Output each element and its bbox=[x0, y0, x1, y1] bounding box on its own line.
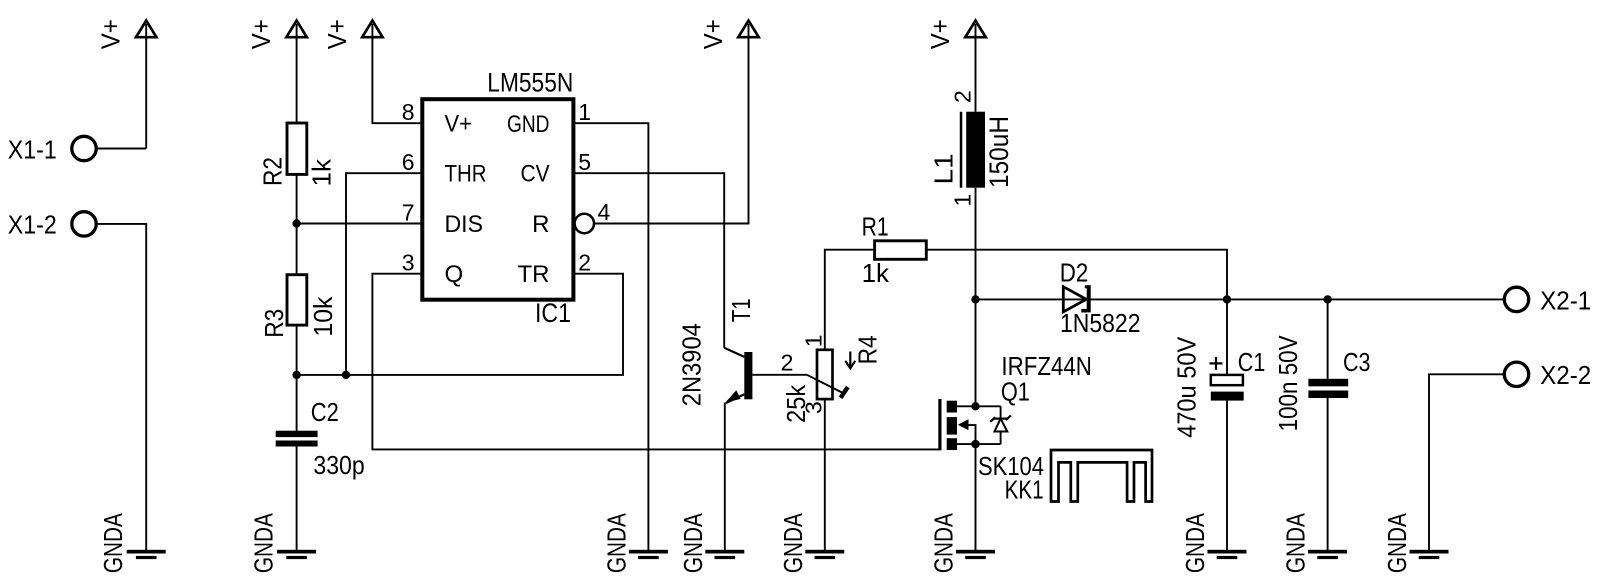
wire output node down to C1 bbox=[1226, 299, 1228, 375]
svg-text:GNDA: GNDA bbox=[249, 513, 279, 574]
svg-text:D2: D2 bbox=[1060, 258, 1089, 288]
capacitor C1 470u 50V bbox=[1172, 336, 1266, 438]
wire source to ground bbox=[975, 444, 977, 550]
ground GNDA (IC1) bbox=[601, 513, 668, 574]
svg-text:DIS: DIS bbox=[445, 211, 484, 238]
connector X1-1 bbox=[8, 134, 96, 164]
svg-text:GNDA: GNDA bbox=[929, 513, 959, 574]
svg-text:2: 2 bbox=[781, 350, 794, 376]
svg-text:2: 2 bbox=[950, 90, 976, 103]
op-amp/timer IC1 LM555N body bbox=[422, 68, 573, 329]
wire output row bbox=[976, 298, 1505, 300]
svg-text:8: 8 bbox=[402, 99, 415, 125]
svg-text:150uH: 150uH bbox=[984, 116, 1014, 188]
supply V+ arrow (R2 branch) bbox=[246, 19, 307, 49]
wire Q pin 3 to MOSFET gate bbox=[372, 274, 939, 450]
svg-text:X1-1: X1-1 bbox=[8, 134, 57, 164]
svg-text:C2: C2 bbox=[311, 397, 339, 427]
wire TR loop (pin 2 to R3/C2 node) bbox=[297, 274, 623, 375]
diode D2 1N5822 bbox=[1060, 258, 1141, 338]
wire X1-1 to V+ corner bbox=[97, 148, 147, 150]
capacitor C2 330p bbox=[276, 397, 365, 480]
svg-text:V+: V+ bbox=[698, 19, 728, 49]
svg-text:1: 1 bbox=[800, 335, 826, 348]
svg-text:X2-1: X2-1 bbox=[1540, 285, 1591, 315]
wire C2 to ground bbox=[296, 447, 298, 551]
potentiometer R4 25k bbox=[781, 335, 883, 423]
svg-text:R: R bbox=[532, 211, 549, 238]
svg-text:3: 3 bbox=[402, 250, 415, 276]
svg-text:KK1: KK1 bbox=[1005, 475, 1044, 505]
connector X2-2 bbox=[1504, 360, 1591, 390]
svg-text:GNDA: GNDA bbox=[1382, 513, 1412, 574]
wire CV pin 5 to T1 collector bbox=[573, 173, 724, 348]
svg-text:R4: R4 bbox=[853, 335, 883, 364]
resistor R3 10k bbox=[259, 275, 338, 338]
resistor R1 1k bbox=[862, 212, 927, 288]
svg-text:10k: 10k bbox=[308, 296, 338, 337]
wire L1 to switch node bbox=[975, 188, 977, 300]
ground GNDA (R4) bbox=[778, 513, 845, 574]
wire V+ to pin 8 bbox=[372, 37, 422, 123]
wire X2-2 to ground bbox=[1429, 374, 1505, 550]
supply V+ arrow (pin 4 branch) bbox=[698, 19, 759, 49]
svg-text:GNDA: GNDA bbox=[778, 513, 808, 574]
supply V+ arrow (X1 branch) bbox=[96, 19, 157, 49]
wire drain vertical bbox=[975, 299, 977, 406]
svg-text:R3: R3 bbox=[259, 309, 289, 338]
resistor R2 1k bbox=[258, 123, 337, 187]
svg-text:X2-2: X2-2 bbox=[1540, 360, 1591, 390]
svg-text:2: 2 bbox=[578, 250, 591, 276]
ground GNDA (Q1) bbox=[929, 513, 996, 574]
svg-text:THR: THR bbox=[445, 161, 487, 188]
wire V+ to L1 bbox=[975, 37, 977, 112]
node switch-node junction bbox=[971, 295, 979, 303]
wire V+ to R2 bbox=[296, 37, 298, 123]
svg-text:CV: CV bbox=[521, 161, 550, 188]
node junction R3/C2/TR-loop bbox=[292, 371, 300, 379]
wire V+ down to X1-1 row bbox=[145, 37, 147, 149]
connector X2-1 bbox=[1504, 285, 1591, 315]
svg-text:V+: V+ bbox=[246, 19, 276, 49]
wire R4 bottom to ground bbox=[824, 399, 826, 550]
svg-text:GNDA: GNDA bbox=[678, 513, 708, 574]
node source junction bbox=[971, 440, 979, 448]
transistor T1 2N3904 bbox=[676, 298, 756, 406]
ground GNDA (T1) bbox=[678, 513, 745, 574]
node junction THR/TR-loop bbox=[342, 371, 350, 379]
svg-text:1k: 1k bbox=[862, 258, 890, 288]
node drain junction bbox=[971, 402, 979, 410]
svg-text:3: 3 bbox=[800, 401, 826, 414]
wire R2 to R3 bbox=[296, 174, 298, 274]
svg-text:100n 50V: 100n 50V bbox=[1273, 335, 1303, 432]
svg-text:GNDA: GNDA bbox=[1281, 513, 1311, 574]
wire R3 to C2 bbox=[296, 325, 298, 431]
wire output node down to C3 bbox=[1327, 299, 1329, 378]
svg-text:V+: V+ bbox=[322, 19, 352, 49]
svg-text:L1: L1 bbox=[929, 153, 959, 184]
ground GNDA (C1) bbox=[1180, 513, 1247, 574]
capacitor C3 100n 50V bbox=[1273, 335, 1371, 432]
wire X1-2 to ground corner bbox=[97, 224, 147, 550]
svg-text:V+: V+ bbox=[925, 19, 955, 49]
wire GND pin 1 to ground bbox=[573, 123, 648, 550]
svg-text:V+: V+ bbox=[96, 19, 126, 49]
svg-text:2N3904: 2N3904 bbox=[676, 323, 706, 406]
supply V+ arrow (L1 branch) bbox=[925, 19, 986, 49]
svg-text:4: 4 bbox=[598, 199, 611, 225]
node junction R2/R3/DIS bbox=[292, 219, 300, 227]
svg-text:GNDA: GNDA bbox=[98, 513, 128, 574]
svg-text:330p: 330p bbox=[313, 450, 364, 480]
svg-text:GNDA: GNDA bbox=[601, 513, 631, 574]
svg-text:TR: TR bbox=[518, 261, 550, 288]
svg-text:C3: C3 bbox=[1343, 347, 1371, 377]
svg-text:1: 1 bbox=[950, 194, 976, 207]
svg-text:R2: R2 bbox=[258, 157, 288, 186]
node C3 junction bbox=[1323, 295, 1331, 303]
svg-text:5: 5 bbox=[578, 149, 591, 175]
svg-text:LM555N: LM555N bbox=[487, 68, 573, 98]
svg-text:1N5822: 1N5822 bbox=[1060, 308, 1141, 338]
svg-text:1k: 1k bbox=[307, 158, 337, 186]
wire R1 right lead to output node bbox=[926, 250, 1227, 300]
inverted reset pin 4 circle bbox=[575, 214, 594, 233]
connector X1-2 bbox=[8, 210, 96, 240]
ground GNDA (X2-2) bbox=[1382, 513, 1449, 574]
wire C1 to ground bbox=[1226, 401, 1228, 550]
wire THR pin 6 bbox=[346, 173, 422, 375]
wire R1 left lead down to R4 pin 1 bbox=[825, 250, 875, 350]
svg-text:7: 7 bbox=[402, 200, 415, 226]
svg-text:Q1: Q1 bbox=[1001, 377, 1030, 407]
supply V+ arrow (pin 8 branch) bbox=[322, 19, 383, 49]
svg-text:R1: R1 bbox=[862, 212, 889, 242]
svg-text:6: 6 bbox=[402, 149, 415, 175]
svg-text:GND: GND bbox=[507, 111, 550, 138]
wire DIS pin 7 bbox=[297, 223, 423, 225]
svg-text:470u 50V: 470u 50V bbox=[1172, 336, 1202, 438]
svg-text:V+: V+ bbox=[445, 111, 473, 138]
svg-text:X1-2: X1-2 bbox=[8, 210, 57, 240]
ground GNDA (X1-2) bbox=[98, 513, 166, 574]
svg-text:1: 1 bbox=[578, 99, 591, 125]
wire T1 emitter to ground bbox=[724, 403, 726, 551]
svg-text:IC1: IC1 bbox=[535, 298, 571, 328]
svg-text:C1: C1 bbox=[1238, 347, 1266, 377]
wire R pin 4 to V+ bbox=[594, 40, 749, 224]
transistor Q1 IRFZ44N MOSFET bbox=[938, 351, 1092, 450]
wire T1 base to R4 wiper bbox=[752, 374, 807, 376]
ground GNDA (C3) bbox=[1281, 513, 1348, 574]
svg-text:Q: Q bbox=[445, 261, 464, 288]
wire C3 to ground bbox=[1327, 398, 1329, 550]
ground GNDA (C2) bbox=[249, 513, 317, 574]
svg-text:T1: T1 bbox=[726, 298, 756, 322]
node output/D2 cathode junction bbox=[1223, 295, 1231, 303]
svg-text:GNDA: GNDA bbox=[1180, 513, 1210, 574]
inductor L1 150uH bbox=[929, 90, 1015, 206]
heatsink KK1 SK104 bbox=[978, 450, 1152, 505]
